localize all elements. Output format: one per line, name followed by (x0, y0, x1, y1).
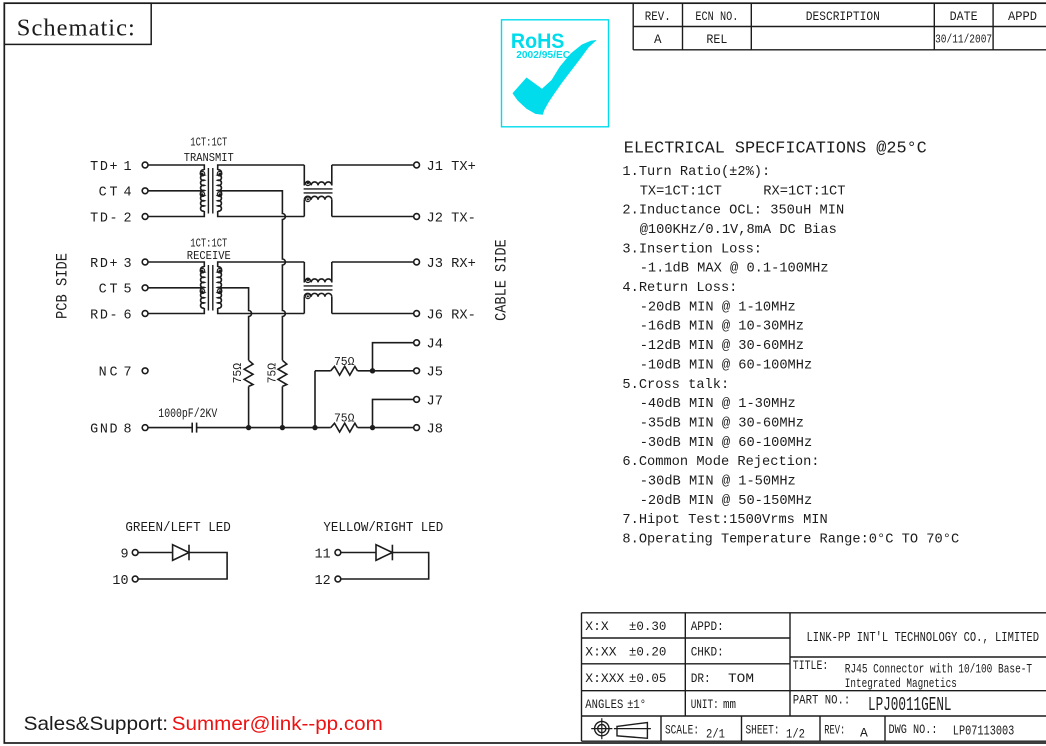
choke L2 core (304, 286, 333, 290)
svg-text:A: A (654, 33, 662, 47)
cell REV: A (824, 722, 868, 740)
svg-text:Integrated Magnetics: Integrated Magnetics (845, 676, 957, 691)
revision table headers (645, 10, 1037, 24)
junction J5 branch-ground bus (312, 425, 317, 430)
wire T2 secondary center tap to R1 (with crossover hop) (218, 288, 252, 361)
svg-text:CHKD:: CHKD: (691, 645, 724, 660)
svg-text:LINK-PP INT'L TECHNOLOGY CO.,: LINK-PP INT'L TECHNOLOGY CO., LIMITED (807, 630, 1040, 646)
choke L1 left vertical (J1 side) (303, 165, 305, 185)
svg-text:GREEN/LEFT LED: GREEN/LEFT LED (125, 521, 230, 536)
pin TD+ 1 label (90, 160, 132, 175)
L1 phase dot top (306, 181, 311, 186)
svg-text:75Ω: 75Ω (334, 412, 355, 426)
svg-text:±1°: ±1° (627, 697, 646, 712)
wire T2 secondary bottom toward choke L2 (218, 308, 305, 314)
tolerance X:XX +-0.20 (585, 645, 666, 660)
revision table grid (633, 3, 1046, 50)
svg-text:RD+: RD+ (90, 257, 118, 272)
svg-text:5: 5 (124, 283, 132, 298)
junction R1-ground bus (246, 425, 251, 430)
svg-text:1000pF/2KV: 1000pF/2KV (158, 407, 217, 421)
svg-text:PART NO.:: PART NO.: (793, 692, 851, 707)
svg-text:4: 4 (124, 186, 132, 201)
T2 phase dot (217, 268, 222, 273)
L2 phase dot bottom (306, 294, 311, 299)
T2 phase dot (200, 289, 205, 294)
projection symbol cone (614, 723, 651, 739)
wire J4 branch (373, 343, 414, 371)
svg-text:J8: J8 (427, 423, 443, 438)
svg-text:CT: CT (99, 283, 118, 298)
svg-text:J7: J7 (427, 394, 443, 409)
pin RD+ 3 terminal (142, 259, 148, 265)
svg-text:6.Common Mode Rejection:: 6.Common Mode Rejection: (622, 455, 819, 470)
svg-text:6: 6 (124, 308, 132, 323)
pin CT 5 label (99, 283, 132, 298)
pin GND 8 terminal (142, 425, 148, 431)
junction R2-ground bus (280, 425, 285, 430)
svg-text:9: 9 (120, 547, 128, 562)
wire pin 11 to diode D2 (341, 552, 376, 554)
choke L2 left vertical (J3 side) (303, 262, 305, 282)
choke L2 top winding (304, 279, 332, 282)
svg-text:LP07113003: LP07113003 (953, 723, 1015, 739)
wire T1 secondary bottom toward choke L1 (218, 211, 305, 217)
LED D1 (green/left) (173, 545, 189, 561)
title block grid (582, 613, 1046, 741)
svg-text:RJ45 Connector with 10/100 Bas: RJ45 Connector with 10/100 Base-T (845, 662, 1032, 677)
svg-text:Summer@link--pp.com: Summer@link--pp.com (172, 713, 383, 735)
svg-text:12: 12 (315, 574, 331, 589)
svg-text:SHEET:: SHEET: (746, 722, 780, 737)
terminal J2 (414, 214, 420, 220)
svg-text:DWG NO.:: DWG NO.: (889, 723, 938, 737)
wire J5 branch vertical to ground bus (314, 371, 316, 428)
svg-text:SCALE:: SCALE: (665, 722, 699, 737)
wire diode D1 to pin 10 (138, 553, 227, 580)
svg-text:8.Operating Temperature Range:: 8.Operating Temperature Range:0°C TO 70°… (622, 533, 959, 548)
svg-text:-30dB MIN @ 60-100MHz: -30dB MIN @ 60-100MHz (640, 436, 813, 451)
svg-text:NC: NC (99, 366, 118, 381)
svg-text:-40dB MIN @ 1-30MHz: -40dB MIN @ 1-30MHz (640, 397, 796, 412)
wire R3 to J5 (358, 370, 414, 372)
svg-text:75Ω: 75Ω (334, 355, 355, 369)
svg-text:-20dB MIN @ 50-150MHz: -20dB MIN @ 50-150MHz (640, 494, 813, 509)
wire J7 branch (373, 399, 414, 427)
L1 phase dot bottom (306, 197, 311, 202)
wire TD+ pin to T1 primary (148, 165, 204, 170)
svg-text:DR:: DR: (691, 671, 711, 686)
wire R4 to J8 (358, 427, 414, 429)
schematic title box (4, 3, 151, 44)
wire T2 secondary top to choke L2 (218, 262, 305, 267)
wire choke L2 to J6 (332, 313, 414, 315)
svg-text:7.Hipot Test:1500Vrms MIN: 7.Hipot Test:1500Vrms MIN (622, 513, 827, 528)
choke L1 top winding (304, 182, 332, 185)
svg-text:mm: mm (723, 697, 736, 712)
pin RD+ 3 label (90, 257, 132, 272)
svg-text:5.Cross talk:: 5.Cross talk: (622, 378, 729, 393)
transformer T1 secondary winding (218, 170, 222, 211)
transformer T2 core (208, 265, 212, 311)
svg-text:GND: GND (90, 423, 118, 438)
choke L1 core (304, 189, 333, 193)
cell SCALE: 2/1 (665, 722, 725, 741)
choke L2 top winding right vertical (331, 262, 333, 282)
wire R1 bottom to ground bus (248, 386, 250, 427)
revision row A REL 30/11/2007 (654, 33, 992, 47)
pin RD- 6 terminal (142, 311, 148, 317)
svg-text:TOM: TOM (728, 671, 754, 686)
svg-text:DATE: DATE (950, 10, 978, 24)
terminal J1 (414, 162, 420, 168)
svg-text:X:X: X:X (585, 619, 609, 634)
wire CT 4 pin to T1 primary center tap (148, 190, 204, 192)
svg-text:±0.30: ±0.30 (629, 619, 667, 634)
terminal J4 (414, 340, 420, 346)
svg-text:Schematic:: Schematic: (17, 14, 135, 41)
svg-text:CABLE SIDE: CABLE SIDE (492, 239, 510, 321)
svg-text:8: 8 (124, 423, 132, 438)
cell DWG NO.: LP07113003 (889, 723, 1015, 739)
svg-text:REV:: REV: (824, 722, 845, 737)
svg-text:ECN NO.: ECN NO. (695, 10, 738, 24)
choke L1 bottom winding (304, 196, 332, 199)
wire choke L2 to J3 (332, 261, 414, 263)
pin RD- 6 label (90, 308, 132, 323)
transformer T1 core (208, 168, 212, 214)
svg-text:1.Turn Ratio(±2%):: 1.Turn Ratio(±2%): (622, 165, 770, 180)
svg-text:APPD:: APPD: (691, 619, 724, 634)
choke L2 bottom winding (304, 293, 332, 296)
svg-text:TITLE:: TITLE: (793, 658, 829, 673)
svg-text:30/11/2007: 30/11/2007 (935, 33, 992, 46)
pin 9 terminal (132, 550, 138, 556)
svg-text:-30dB MIN @ 1-50MHz: -30dB MIN @ 1-50MHz (640, 475, 796, 490)
svg-text:-1.1dB MAX @ 0.1-100MHz: -1.1dB MAX @ 0.1-100MHz (640, 262, 829, 277)
ground bus wire from C1 to R4 (197, 427, 331, 429)
svg-text:DESCRIPTION: DESCRIPTION (806, 10, 880, 24)
svg-text:TD+: TD+ (90, 160, 118, 175)
svg-text:TX=1CT:1CT: TX=1CT:1CT (640, 184, 722, 199)
svg-text:1CT:1CT: 1CT:1CT (190, 136, 227, 150)
wire RD+ pin to T2 primary (148, 262, 204, 267)
svg-text:11: 11 (315, 547, 331, 562)
pin CT 4 terminal (142, 188, 148, 194)
svg-text:2/1: 2/1 (706, 727, 725, 742)
wire pin 9 to diode D1 (138, 552, 173, 554)
RoHS logo box (502, 20, 609, 127)
pin TD- 2 label (90, 211, 132, 226)
RoHS checkmark (513, 40, 597, 115)
wire R2 bottom to ground bus (281, 386, 283, 427)
svg-text:10: 10 (112, 574, 128, 589)
svg-text:75Ω: 75Ω (231, 362, 245, 383)
wire T2 primary bottom to RD- pin (148, 308, 204, 314)
T1 phase dot (200, 171, 205, 176)
pin CT 4 label (99, 186, 132, 201)
svg-text:RD-: RD- (90, 308, 118, 323)
junction J4 branch-J5 wire (370, 368, 375, 373)
resistor R4 75ohm (horizontal, in ground bus) (331, 423, 358, 432)
cell DR: TOM (691, 671, 754, 686)
tolerance ANGLES +-1deg (585, 697, 646, 712)
svg-text:TD-: TD- (90, 211, 118, 226)
svg-text:75Ω: 75Ω (265, 362, 279, 383)
svg-text:-16dB MIN @ 10-30MHz: -16dB MIN @ 10-30MHz (640, 320, 804, 335)
wire diode D2 to pin 12 (341, 553, 429, 580)
svg-text:A: A (860, 726, 868, 741)
svg-text:-20dB MIN @ 1-10MHz: -20dB MIN @ 1-10MHz (640, 300, 796, 315)
svg-text:-10dB MIN @ 60-100MHz: -10dB MIN @ 60-100MHz (640, 358, 813, 373)
transformer T1 primary winding (201, 170, 205, 211)
choke L1 bottom winding left vertical (303, 200, 305, 217)
svg-text:±0.20: ±0.20 (629, 645, 667, 660)
svg-text:7: 7 (124, 366, 132, 381)
choke L2 bottom winding left vertical (303, 297, 305, 314)
LED D2 (yellow/right) (376, 545, 392, 561)
svg-text:YELLOW/RIGHT LED: YELLOW/RIGHT LED (323, 521, 443, 536)
capacitor C1 plates (192, 423, 196, 433)
svg-text:@100KHz/0.1V,8mA DC Bias: @100KHz/0.1V,8mA DC Bias (640, 223, 837, 238)
svg-text:ANGLES: ANGLES (585, 697, 623, 712)
wire choke L1 to J2 (332, 216, 414, 218)
tolerance X:XXX +-0.05 (585, 671, 666, 686)
terminal J8 (414, 425, 420, 431)
svg-text:-12dB MIN @ 30-60MHz: -12dB MIN @ 30-60MHz (640, 339, 804, 354)
terminal J6 (414, 311, 420, 317)
svg-text:1: 1 (124, 160, 132, 175)
svg-text:Sales&Support:: Sales&Support: (24, 713, 169, 735)
choke L1 bottom winding right vertical (331, 200, 333, 217)
resistor R2 75ohm (vertical) (278, 360, 287, 386)
tolerance X:X +-0.30 (585, 619, 666, 634)
svg-text:RECEIVE: RECEIVE (187, 249, 231, 263)
svg-text:REV.: REV. (645, 10, 671, 24)
svg-text:1/2: 1/2 (786, 727, 805, 742)
terminal J5 (414, 368, 420, 374)
svg-text:2.Inductance OCL: 350uH MIN: 2.Inductance OCL: 350uH MIN (622, 204, 844, 219)
T2 phase dot (200, 268, 205, 273)
svg-text:-35dB MIN @ 30-60MHz: -35dB MIN @ 30-60MHz (640, 416, 804, 431)
wire T1 primary bottom to TD- pin (148, 211, 204, 217)
wire CT 5 pin to T2 primary center tap (148, 287, 204, 289)
resistor R3 75ohm (horizontal) (331, 366, 358, 375)
svg-text:J4: J4 (427, 338, 443, 353)
svg-text:J6 RX-: J6 RX- (427, 308, 476, 323)
T2 phase dot (217, 289, 222, 294)
svg-text:CT: CT (99, 186, 118, 201)
svg-text:RX=1CT:1CT: RX=1CT:1CT (763, 184, 845, 199)
cell UNIT: mm (691, 697, 736, 712)
pin 11 terminal (335, 550, 341, 556)
T1 phase dot (217, 171, 222, 176)
svg-text:±0.05: ±0.05 (629, 671, 667, 686)
choke L1 top winding right vertical (331, 165, 333, 185)
resistor R1 75ohm (vertical) (244, 360, 253, 386)
svg-text:PCB SIDE: PCB SIDE (53, 253, 71, 319)
svg-text:APPD: APPD (1008, 10, 1037, 24)
svg-text:TRANSMIT: TRANSMIT (184, 151, 234, 165)
svg-text:4.Return Loss:: 4.Return Loss: (622, 281, 737, 296)
wire J5 branch to R3 (315, 370, 331, 372)
svg-text:3: 3 (124, 257, 132, 272)
svg-text:X:XXX: X:XXX (585, 671, 624, 686)
pin GND 8 label (90, 423, 132, 438)
junction J7 branch-ground bus (370, 425, 375, 430)
T1 phase dot (217, 192, 222, 197)
pin 10 terminal (132, 576, 138, 582)
pin NC 7 terminal (142, 368, 148, 374)
pin 12 terminal (335, 576, 341, 582)
svg-text:J3 RX+: J3 RX+ (427, 257, 476, 272)
wire T1 secondary center tap to R2 (with crossover hops) (218, 191, 286, 360)
svg-text:ELECTRICAL SPECFICATIONS @25°C: ELECTRICAL SPECFICATIONS @25°C (624, 140, 927, 159)
svg-text:LPJ0011GENL: LPJ0011GENL (868, 694, 952, 716)
cell SHEET: 1/2 (746, 722, 806, 741)
pin CT 5 terminal (142, 285, 148, 291)
choke L2 bottom winding right vertical (331, 297, 333, 314)
svg-text:J1 TX+: J1 TX+ (427, 160, 476, 175)
svg-text:J5: J5 (427, 366, 443, 381)
terminal J3 (414, 259, 420, 265)
svg-text:J2 TX-: J2 TX- (427, 211, 476, 226)
transformer T2 secondary winding (218, 267, 222, 308)
svg-text:2002/95/EC: 2002/95/EC (516, 49, 570, 61)
wire T1 secondary top to choke L1 (218, 165, 305, 170)
transformer T2 primary winding (201, 267, 205, 308)
svg-text:X:XX: X:XX (585, 645, 616, 660)
wire GND pin to capacitor C1 (148, 427, 192, 429)
T1 phase dot (200, 192, 205, 197)
pin NC 7 label (99, 366, 132, 381)
svg-text:REL: REL (706, 33, 727, 47)
pin TD- 2 terminal (142, 214, 148, 220)
svg-text:2: 2 (124, 211, 132, 226)
wire choke L1 to J1 (332, 164, 414, 166)
pin TD+ 1 terminal (142, 162, 148, 168)
projection symbol circle (591, 718, 612, 739)
terminal J7 (414, 397, 420, 403)
svg-text:UNIT:: UNIT: (691, 697, 719, 712)
electrical specifications text block (622, 165, 959, 548)
svg-text:3.Insertion Loss:: 3.Insertion Loss: (622, 242, 762, 257)
L2 phase dot top (306, 278, 311, 283)
